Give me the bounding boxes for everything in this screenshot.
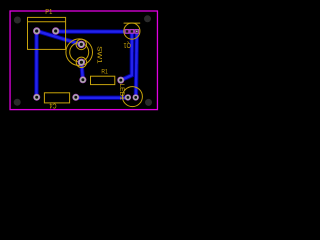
pad LED1.2 — [133, 94, 139, 100]
svg-text:SW1: SW1 — [96, 46, 103, 64]
pad Q1.2 — [130, 30, 134, 34]
wire P1.1 to C4.1 (vertical left) — [34, 31, 38, 97]
capacitor C4 outline — [44, 93, 69, 103]
wire P1.2 to Q1.1 (long horizontal top) — [56, 29, 137, 34]
mounting hole top-left — [14, 17, 21, 24]
switch SW1 outline — [66, 39, 93, 68]
mounting hole top-right — [144, 15, 151, 22]
wire P1.1 to SW1 top pad (diagonal) — [37, 31, 82, 44]
svg-text:LED1: LED1 — [118, 83, 125, 100]
svg-text:P1: P1 — [45, 7, 52, 16]
board edge outline — [10, 11, 157, 110]
svg-text:C4: C4 — [50, 102, 57, 111]
wire Q1.3 to LED1.2 (vertical right) — [134, 31, 139, 97]
pad LED1.1 — [125, 94, 131, 100]
mounting hole bottom-right — [145, 99, 152, 106]
pad P1.1 — [33, 27, 40, 34]
pad SW1 bottom — [78, 59, 85, 66]
wire SW1 bottom pad to R1.1 — [81, 62, 83, 80]
transistor Q1 outline (TO-92) — [124, 23, 141, 39]
resistor R1 outline — [91, 76, 115, 84]
pad SW1 top — [78, 41, 85, 48]
pad C4.2 — [72, 94, 79, 101]
pad Q1.3 — [135, 30, 139, 34]
svg-text:R1: R1 — [101, 68, 108, 75]
pad P1.2 — [52, 27, 59, 34]
pad R1.1 — [79, 76, 86, 83]
pad R1.2 — [117, 77, 124, 84]
wire Q1.2 to R1.2 (vertical then diagonal) — [121, 31, 132, 80]
svg-text:Q1: Q1 — [124, 41, 131, 50]
mounting hole bottom-left — [14, 99, 21, 106]
pad Q1.1 — [125, 30, 129, 34]
connector P1 outline — [28, 17, 66, 49]
wire C4.2 to LED1.1 (horizontal bottom) — [76, 95, 128, 99]
LED D1 outline — [122, 87, 142, 107]
pad C4.1 — [33, 94, 40, 101]
